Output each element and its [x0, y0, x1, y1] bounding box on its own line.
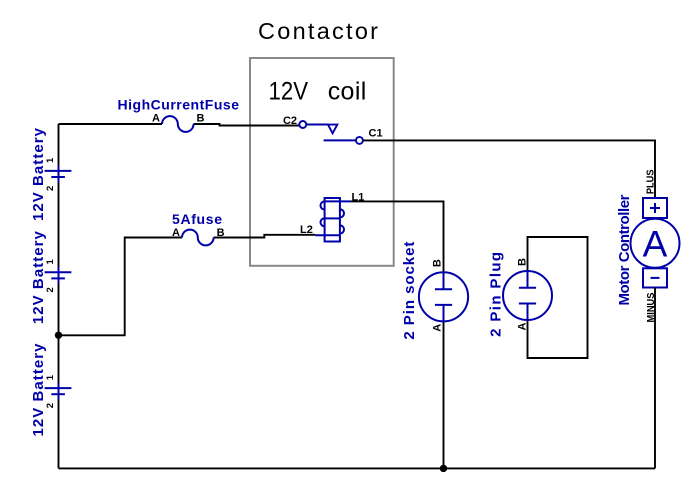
svg-text:C1: C1	[369, 128, 383, 140]
svg-text:A: A	[517, 322, 529, 330]
svg-text:L2: L2	[300, 224, 313, 236]
bottom bus wire	[59, 467, 656, 469]
label 12V coil	[269, 78, 367, 106]
svg-text:HighCurrentFuse: HighCurrentFuse	[118, 97, 240, 113]
fuse F2 5Afuse	[182, 230, 214, 246]
svg-text:1: 1	[45, 157, 56, 163]
svg-text:12V Battery: 12V Battery	[30, 127, 47, 221]
svg-text:B: B	[197, 113, 205, 125]
svg-text:PLUS: PLUS	[645, 170, 657, 195]
svg-text:Motor Controller: Motor Controller	[616, 194, 633, 305]
wire fuse B to coil L2	[214, 235, 316, 238]
wire junction to 5Afuse branch	[59, 238, 183, 336]
svg-text:B: B	[517, 258, 529, 266]
contactor box U1	[250, 58, 394, 266]
svg-text:coil: coil	[328, 78, 367, 106]
wire socket to bottom bus	[443, 322, 445, 469]
junction node bottom bus	[440, 465, 447, 472]
wire L1 to socket	[351, 201, 444, 272]
wire top rail from battery to fuse A	[59, 123, 163, 125]
switch SW1 contact C1	[324, 137, 363, 144]
connector J2 2 Pin Plug	[503, 271, 552, 320]
battery B3	[45, 383, 72, 400]
svg-text:5Afuse: 5Afuse	[172, 211, 222, 227]
svg-text:1: 1	[45, 258, 56, 264]
motor controller U2	[631, 198, 680, 288]
wire fuse B to switch C2	[194, 124, 300, 126]
battery B2	[45, 267, 72, 284]
switch SW1 contact C2	[299, 121, 337, 133]
svg-text:1: 1	[45, 374, 56, 380]
svg-text:12V: 12V	[269, 78, 309, 106]
svg-text:2: 2	[45, 186, 56, 191]
svg-text:Contactor: Contactor	[258, 18, 378, 44]
svg-text:12V Battery: 12V Battery	[30, 343, 47, 437]
junction node on left rail	[55, 332, 62, 339]
svg-text:2: 2	[45, 287, 56, 292]
svg-text:2 Pin Plug: 2 Pin Plug	[488, 252, 505, 337]
svg-text:12V Battery: 12V Battery	[30, 230, 47, 324]
svg-text:A: A	[152, 113, 160, 125]
svg-text:2 Pin socket: 2 Pin socket	[401, 242, 418, 340]
wire plug loop	[528, 237, 588, 358]
svg-text:A: A	[643, 224, 668, 265]
svg-text:A: A	[172, 227, 180, 239]
wire C1 to motor controller	[363, 140, 655, 198]
connector J1 2 Pin socket	[419, 272, 468, 321]
svg-text:A: A	[432, 324, 444, 332]
svg-text:B: B	[432, 259, 444, 267]
battery B1	[45, 166, 72, 183]
coil L of contactor	[315, 198, 351, 242]
left battery rail	[58, 124, 60, 468]
fuse F1 HighCurrentFuse	[162, 116, 194, 132]
svg-text:2: 2	[45, 403, 56, 408]
svg-text:C2: C2	[283, 115, 297, 127]
wire motor controller to bottom bus	[654, 288, 656, 469]
